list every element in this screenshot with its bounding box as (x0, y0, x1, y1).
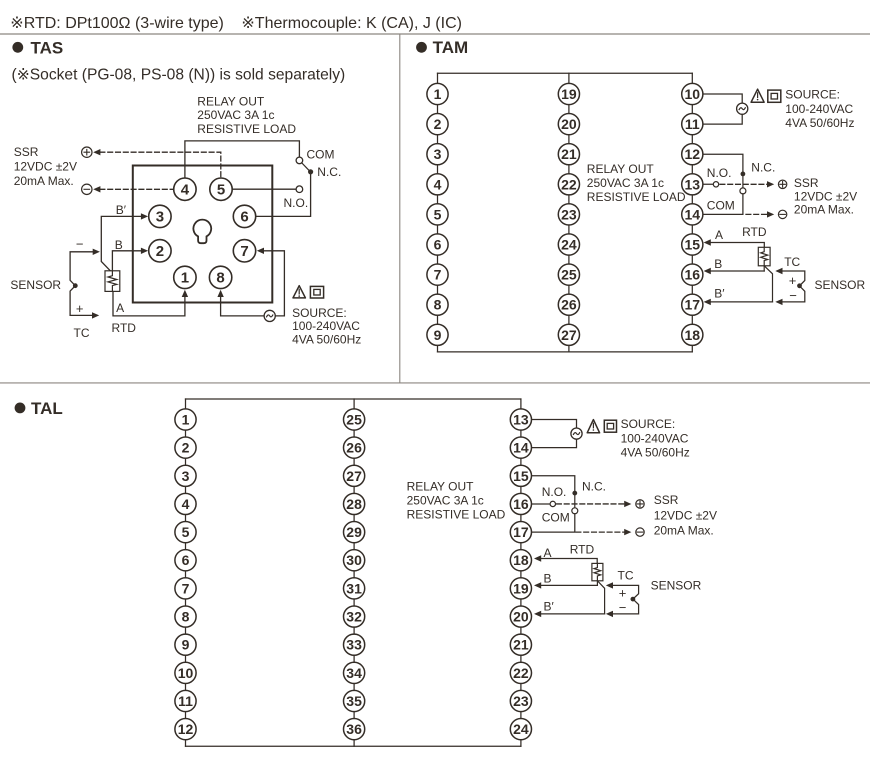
relay N.O. contact (TAM) (713, 182, 718, 187)
terminal rail bottom (TAM) (438, 351, 693, 353)
svg-text:27: 27 (346, 468, 362, 484)
svg-text:16: 16 (685, 267, 701, 283)
svg-text:8: 8 (216, 270, 224, 287)
terminal pin 13 (TAM) (682, 174, 703, 195)
relay N.C. contact (TAM) (741, 172, 746, 177)
SSR label (TAL) (654, 493, 717, 537)
svg-text:A: A (116, 301, 124, 315)
terminal pin 14 (TAL) (510, 437, 531, 458)
svg-text:N.C.: N.C. (751, 160, 775, 174)
section title TAS (12, 39, 63, 58)
svg-text:3: 3 (156, 209, 164, 226)
svg-text:N.O.: N.O. (707, 166, 732, 180)
terminal pin 24 (TAL) (510, 719, 531, 740)
terminal pin 2 (TAL) (175, 437, 196, 458)
svg-text:TC: TC (74, 326, 90, 340)
svg-text:2: 2 (434, 116, 442, 132)
terminal rail top (TAM) (438, 72, 693, 74)
wire pin5 to N.O. contact (230, 188, 296, 190)
SSR terminal plus (82, 147, 92, 157)
resistor RTD (TAL) (592, 563, 603, 580)
wire pin10-pin11 to AC source (TAM) (692, 94, 742, 124)
TC junction dot (TAL) (631, 597, 636, 602)
svg-text:TC: TC (784, 255, 800, 269)
svg-text:COM: COM (307, 147, 335, 161)
svg-text:11: 11 (178, 693, 193, 709)
pin 1 (TAS socket) (174, 266, 196, 288)
terminal pin 21 (TAM) (558, 144, 579, 165)
terminal pin 8 (TAM) (427, 294, 448, 315)
svg-text:−: − (76, 237, 84, 252)
terminal pin 12 (TAM) (682, 144, 703, 165)
relay N.O. contact (296, 186, 303, 193)
warning symbol (TAS) (293, 286, 305, 298)
svg-text:RELAY OUT: RELAY OUT (587, 162, 655, 176)
svg-text:SENSOR: SENSOR (815, 278, 866, 292)
wire pin8 to source (221, 296, 264, 316)
pin 8 (TAS socket) (209, 266, 231, 288)
svg-text:B: B (714, 257, 722, 271)
terminal column line 2 (TAM) (568, 73, 570, 352)
source label (TAM) (785, 88, 854, 130)
svg-text:B′: B′ (544, 600, 555, 614)
SSR terminal minus (82, 184, 92, 194)
wire B to pin19 (TAL) (540, 584, 597, 586)
svg-text:6: 6 (240, 209, 248, 226)
terminal pin 3 (TAL) (175, 465, 196, 486)
wire A to pin15 (TAM) (710, 243, 765, 247)
header underline (0, 33, 870, 35)
svg-text:23: 23 (561, 206, 577, 222)
svg-text:25: 25 (561, 267, 577, 283)
wire B-prime to pin20 (TAL) (540, 613, 604, 615)
SSR dashed wire plus (TAM) (720, 183, 767, 185)
svg-text:RTD: RTD (570, 542, 595, 556)
terminal pin 8 (TAL) (175, 606, 196, 627)
terminal pin 26 (TAM) (558, 294, 579, 315)
wire B-prime to pin17 (TAM) (710, 301, 773, 303)
svg-text:5: 5 (217, 182, 225, 199)
svg-text:15: 15 (513, 468, 529, 484)
svg-text:250VAC 3A 1c: 250VAC 3A 1c (587, 176, 664, 190)
terminal pin 35 (TAL) (344, 690, 365, 711)
svg-text:2: 2 (156, 243, 164, 260)
wire resistor stub to B (TAL) (596, 581, 598, 586)
resistor RTD (TAS) (105, 271, 120, 292)
terminal pin 23 (TAL) (510, 690, 531, 711)
svg-text:TAL: TAL (31, 399, 63, 418)
svg-text:B′: B′ (116, 203, 127, 217)
vertical section divider (399, 35, 401, 383)
svg-text:4VA 50/60Hz: 4VA 50/60Hz (292, 332, 361, 346)
terminal pin 7 (TAL) (175, 578, 196, 599)
svg-text:27: 27 (561, 327, 577, 343)
SSR terminal minus (TAL) (636, 528, 644, 536)
svg-text:SOURCE:: SOURCE: (292, 306, 347, 320)
terminal pin 9 (TAL) (175, 634, 196, 655)
class II symbol (TAL) (604, 420, 616, 432)
svg-text:19: 19 (513, 580, 529, 596)
terminal pin 31 (TAL) (344, 578, 365, 599)
svg-text:1: 1 (181, 270, 189, 287)
terminal pin 21 (TAL) (510, 634, 531, 655)
terminal pin 19 (TAM) (558, 83, 579, 104)
svg-text:25: 25 (346, 411, 362, 427)
pin 7 (TAS socket) (233, 240, 255, 262)
wire resistor stub to B (TAM) (763, 266, 765, 271)
terminal pin 24 (TAM) (558, 234, 579, 255)
terminal pin 1 (TAM) (427, 83, 448, 104)
terminal pin 5 (TAL) (175, 522, 196, 543)
svg-text:4: 4 (434, 176, 442, 192)
relay N.C. contact (TAL) (572, 491, 577, 496)
wire pin4 to relay COM (185, 141, 300, 180)
svg-text:18: 18 (513, 552, 529, 568)
terminal pin 4 (TAM) (427, 174, 448, 195)
terminal column line 3 (TAL) (520, 399, 522, 746)
terminal pin 5 (TAM) (427, 204, 448, 225)
terminal pin 6 (TAM) (427, 234, 448, 255)
svg-text:6: 6 (434, 236, 442, 252)
svg-text:A: A (715, 228, 723, 242)
terminal pin 18 (TAM) (682, 324, 703, 345)
thermocouple TC leads (TAL) (612, 585, 638, 614)
wire pin17 to COM (TAL) (521, 514, 575, 533)
terminal rail bottom (TAL) (186, 745, 521, 747)
svg-text:※RTD: DPt100Ω (3-wire type): ※RTD: DPt100Ω (3-wire type) (10, 15, 224, 32)
svg-text:4: 4 (181, 182, 190, 199)
terminal pin 29 (TAL) (344, 522, 365, 543)
svg-text:N.C.: N.C. (582, 479, 606, 493)
wire pin13 to N.O. (TAM) (692, 183, 713, 185)
warning symbol (TAM) (751, 89, 764, 102)
terminal pin 12 (TAL) (175, 719, 196, 740)
SSR label (TAM) (794, 176, 857, 217)
pin 2 (TAS socket) (149, 240, 171, 262)
svg-text:COM: COM (542, 511, 570, 525)
svg-text:100-240VAC: 100-240VAC (621, 431, 689, 445)
relay switch arm (TAM) (742, 176, 744, 188)
svg-text:14: 14 (513, 440, 529, 456)
wire B-prime to pin3 (101, 216, 141, 271)
svg-text:8: 8 (434, 297, 442, 313)
svg-text:1: 1 (182, 411, 190, 427)
svg-text:12: 12 (178, 721, 194, 737)
section title TAL (15, 399, 63, 418)
svg-text:14: 14 (685, 206, 701, 222)
svg-text:5: 5 (434, 206, 442, 222)
svg-text:21: 21 (561, 146, 577, 162)
svg-text:18: 18 (685, 327, 701, 343)
svg-text:SENSOR: SENSOR (10, 278, 61, 292)
svg-text:100-240VAC: 100-240VAC (292, 319, 360, 333)
terminal column line 1 (TAM) (437, 73, 439, 352)
SSR terminal minus (TAM) (778, 210, 786, 218)
terminal pin 9 (TAM) (427, 324, 448, 345)
relay out label TAL (407, 479, 506, 521)
svg-text:SSR: SSR (654, 493, 679, 507)
relay N.O. contact (TAL) (550, 501, 555, 506)
pin 3 (TAS socket) (149, 205, 171, 227)
svg-text:COM: COM (707, 199, 735, 213)
svg-text:100-240VAC: 100-240VAC (785, 102, 853, 116)
svg-text:30: 30 (346, 552, 362, 568)
terminal pin 36 (TAL) (344, 719, 365, 740)
terminal pin 2 (TAM) (427, 114, 448, 135)
svg-text:RTD: RTD (112, 321, 137, 335)
svg-text:24: 24 (513, 721, 529, 737)
terminal pin 15 (TAM) (682, 234, 703, 255)
terminal pin 30 (TAL) (344, 550, 365, 571)
terminal pin 32 (TAL) (344, 606, 365, 627)
svg-text:13: 13 (513, 411, 529, 427)
svg-text:N.O.: N.O. (542, 485, 567, 499)
terminal column line 1 (TAL) (185, 399, 187, 746)
TC junction dot (TAM) (797, 283, 802, 288)
svg-text:3: 3 (182, 468, 190, 484)
svg-text:RELAY OUT: RELAY OUT (197, 94, 265, 108)
thermocouple TC leads (70, 252, 93, 316)
source label (TAL) (621, 417, 690, 460)
svg-text:23: 23 (513, 693, 529, 709)
terminal pin 17 (TAM) (682, 294, 703, 315)
relay switch arm (302, 163, 309, 171)
TC junction dot (73, 283, 78, 288)
svg-text:6: 6 (182, 552, 190, 568)
svg-text:SOURCE:: SOURCE: (621, 417, 676, 431)
svg-text:※Thermocouple: K (CA), J (IC): ※Thermocouple: K (CA), J (IC) (241, 15, 462, 32)
svg-text:SOURCE:: SOURCE: (785, 88, 840, 102)
terminal pin 3 (TAM) (427, 144, 448, 165)
source label (TAS) (292, 306, 361, 346)
svg-text:21: 21 (513, 637, 529, 653)
AC source symbol (TAM) (737, 103, 748, 114)
svg-text:17: 17 (685, 297, 701, 313)
wire N.C. contact to pin6 (254, 173, 311, 216)
svg-text:22: 22 (561, 176, 577, 192)
SSR plus dashed wire to pin5 (100, 152, 221, 176)
relay COM contact (296, 157, 303, 164)
svg-text:250VAC 3A 1c: 250VAC 3A 1c (197, 108, 274, 122)
relay N.C. contact (308, 169, 313, 174)
wire resistor to B-prime junction (TAL) (597, 581, 604, 614)
svg-text:10: 10 (685, 86, 701, 102)
class II symbol (TAM) (768, 90, 781, 102)
socket keyhole (193, 220, 211, 244)
resistor RTD (TAM) (758, 247, 770, 265)
svg-text:TAS: TAS (31, 39, 64, 58)
relay switch arm (TAL) (574, 495, 576, 508)
terminal pin 23 (TAM) (558, 204, 579, 225)
wire pin12 to N.C. (TAM) (692, 154, 743, 171)
svg-text:+: + (76, 301, 84, 316)
svg-text:17: 17 (513, 524, 529, 540)
svg-text:SSR: SSR (794, 176, 819, 190)
terminal pin 25 (TAM) (558, 264, 579, 285)
terminal pin 26 (TAL) (344, 437, 365, 458)
terminal pin 16 (TAL) (510, 493, 531, 514)
wire B to pin16 (TAM) (710, 270, 764, 272)
svg-text:28: 28 (346, 496, 362, 512)
svg-text:32: 32 (346, 609, 362, 625)
svg-text:12VDC ±2V: 12VDC ±2V (14, 160, 77, 174)
svg-text:13: 13 (685, 176, 701, 192)
socket outline (TAS) (133, 166, 272, 303)
wire B to pin2 (112, 251, 141, 271)
terminal rail top (TAL) (186, 398, 521, 400)
svg-text:9: 9 (182, 637, 190, 653)
svg-text:4VA 50/60Hz: 4VA 50/60Hz (621, 446, 690, 460)
svg-text:(※Socket (PG-08, PS-08 (N)) is: (※Socket (PG-08, PS-08 (N)) is sold sepa… (12, 66, 346, 83)
SSR dashed wire minus (TAM) (746, 213, 767, 215)
svg-text:A: A (544, 546, 552, 560)
svg-text:26: 26 (561, 297, 577, 313)
svg-text:RESISTIVE LOAD: RESISTIVE LOAD (197, 122, 296, 136)
svg-text:SSR: SSR (14, 145, 39, 159)
svg-text:5: 5 (182, 524, 190, 540)
svg-text:7: 7 (182, 580, 190, 596)
pin 4 (TAS socket) (174, 178, 196, 200)
SSR dashed wire minus (TAL) (576, 531, 624, 533)
terminal pin 22 (TAL) (510, 662, 531, 683)
terminal pin 4 (TAL) (175, 493, 196, 514)
svg-text:+: + (789, 273, 797, 288)
terminal pin 33 (TAL) (344, 634, 365, 655)
terminal pin 15 (TAL) (510, 465, 531, 486)
warning symbol (TAL) (587, 420, 599, 433)
wire pin7 to source (263, 251, 284, 316)
svg-text:2: 2 (182, 440, 190, 456)
terminal pin 6 (TAL) (175, 550, 196, 571)
AC source symbol (TAL) (571, 428, 582, 439)
svg-text:7: 7 (434, 267, 442, 283)
svg-text:22: 22 (513, 665, 529, 681)
svg-text:N.C.: N.C. (317, 165, 341, 179)
section title TAM (416, 38, 468, 57)
svg-text:24: 24 (561, 236, 577, 252)
wire pin15 to N.C. (TAL) (521, 476, 575, 491)
SSR terminal plus (TAM) (778, 180, 786, 188)
svg-text:8: 8 (182, 609, 190, 625)
terminal pin 20 (TAL) (510, 606, 531, 627)
terminal pin 16 (TAM) (682, 264, 703, 285)
terminal pin 1 (TAL) (175, 409, 196, 430)
svg-text:RESISTIVE LOAD: RESISTIVE LOAD (407, 507, 506, 521)
svg-text:10: 10 (178, 665, 194, 681)
terminal pin 28 (TAL) (344, 493, 365, 514)
svg-text:12VDC ±2V: 12VDC ±2V (794, 189, 857, 203)
terminal pin 25 (TAL) (344, 409, 365, 430)
relay out label TAM (587, 162, 686, 204)
terminal pin 13 (TAL) (510, 409, 531, 430)
terminal pin 11 (TAL) (175, 690, 196, 711)
svg-text:33: 33 (346, 637, 362, 653)
svg-text:26: 26 (346, 440, 362, 456)
terminal column line 2 (TAL) (353, 399, 355, 746)
svg-text:20: 20 (513, 609, 529, 625)
svg-text:12: 12 (685, 146, 701, 162)
svg-text:−: − (619, 600, 627, 615)
svg-text:11: 11 (685, 116, 700, 132)
svg-text:4: 4 (182, 496, 190, 512)
svg-text:+: + (619, 586, 627, 601)
terminal pin 22 (TAM) (558, 174, 579, 195)
terminal pin 7 (TAM) (427, 264, 448, 285)
svg-text:3: 3 (434, 146, 442, 162)
svg-text:20mA Max.: 20mA Max. (14, 174, 74, 188)
svg-text:9: 9 (434, 327, 442, 343)
class II symbol (TAS) (310, 286, 323, 298)
wire resistor to B-prime junction (TAM) (764, 266, 772, 302)
svg-text:20: 20 (561, 116, 577, 132)
relay out label TAS (197, 94, 296, 136)
relay moving contact (TAM) (740, 188, 746, 194)
SSR minus dashed wire to pin4 (100, 188, 173, 190)
svg-text:RESISTIVE LOAD: RESISTIVE LOAD (587, 190, 686, 204)
thermocouple TC leads (TAM) (782, 271, 805, 302)
svg-text:TC: TC (618, 568, 634, 582)
svg-text:250VAC 3A 1c: 250VAC 3A 1c (407, 493, 484, 507)
terminal pin 27 (TAM) (558, 324, 579, 345)
SSR label (14, 145, 77, 188)
wire A to pin18 (TAL) (540, 559, 597, 564)
terminal column line 3 (TAM) (691, 73, 693, 352)
svg-text:15: 15 (685, 236, 701, 252)
SSR terminal plus (TAL) (636, 500, 644, 508)
terminal pin 10 (TAL) (175, 662, 196, 683)
svg-text:B′: B′ (714, 287, 725, 301)
svg-text:RELAY OUT: RELAY OUT (407, 479, 475, 493)
pin 5 (TAS socket) (210, 178, 232, 200)
terminal pin 18 (TAL) (510, 550, 531, 571)
relay moving contact (TAL) (572, 508, 578, 514)
svg-text:31: 31 (346, 580, 362, 596)
svg-text:N.O.: N.O. (284, 196, 309, 210)
terminal pin 17 (TAL) (510, 522, 531, 543)
terminal pin 10 (TAM) (682, 83, 703, 104)
terminal pin 27 (TAL) (344, 465, 365, 486)
svg-text:29: 29 (346, 524, 362, 540)
svg-text:16: 16 (513, 496, 529, 512)
svg-text:SENSOR: SENSOR (651, 578, 702, 592)
svg-text:4VA 50/60Hz: 4VA 50/60Hz (785, 116, 854, 130)
svg-text:TAM: TAM (433, 38, 469, 57)
SSR dashed wire plus (TAL) (557, 503, 625, 505)
wire pin13-pin14 to AC source (TAL) (521, 420, 577, 448)
wire pin16 to N.O. (TAL) (521, 503, 550, 505)
svg-text:7: 7 (240, 243, 248, 260)
svg-text:34: 34 (346, 665, 362, 681)
terminal pin 19 (TAL) (510, 578, 531, 599)
svg-text:20mA Max.: 20mA Max. (794, 203, 854, 217)
terminal pin 34 (TAL) (344, 662, 365, 683)
svg-text:B: B (544, 572, 552, 586)
svg-text:35: 35 (346, 693, 362, 709)
wire A to pin1 (113, 292, 185, 316)
svg-text:19: 19 (561, 86, 577, 102)
svg-text:−: − (789, 288, 797, 303)
svg-text:1: 1 (434, 86, 442, 102)
wire pin14 to COM (TAM) (692, 194, 743, 215)
terminal pin 11 (TAM) (682, 114, 703, 135)
svg-text:B: B (115, 238, 123, 252)
horizontal section divider (0, 382, 870, 384)
terminal pin 14 (TAM) (682, 204, 703, 225)
pin 6 (TAS socket) (233, 205, 255, 227)
terminal pin 20 (TAM) (558, 114, 579, 135)
svg-text:36: 36 (346, 721, 362, 737)
svg-text:20mA Max.: 20mA Max. (654, 523, 714, 537)
